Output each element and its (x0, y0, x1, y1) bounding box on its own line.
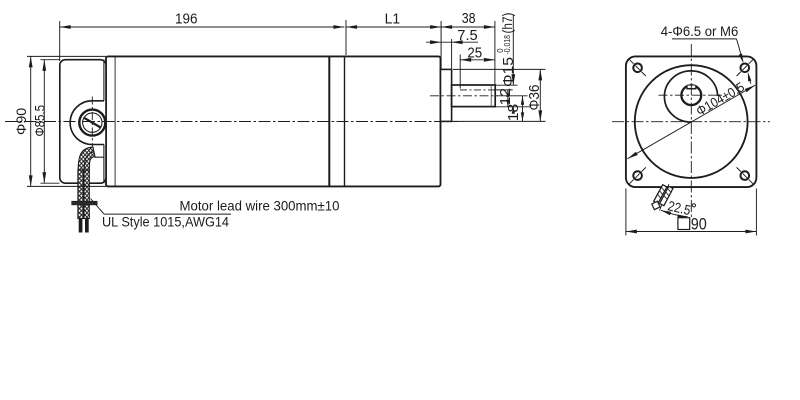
screw outer circle (79, 110, 105, 136)
front shaft circle (681, 85, 701, 105)
lead wire A twisted (78, 170, 83, 219)
rear cap inner edge lower (103, 145, 105, 184)
dim phi85.5 arrow down (42, 172, 46, 183)
dim 196 line (60, 26, 345, 28)
dim 7.5 line (426, 41, 478, 43)
svg-text:Φ90: Φ90 (14, 108, 30, 135)
dim phi90 line (30, 56, 32, 186)
leader 4-phi6.5 diagonal (737, 39, 744, 62)
svg-text:4-Φ6.5 or M6: 4-Φ6.5 or M6 (661, 24, 739, 39)
dim 7.5 arrow left (430, 40, 441, 44)
dim 18 arrow down (521, 112, 524, 121)
dim square90 line (626, 231, 757, 233)
svg-text:-0.018: -0.018 (503, 35, 512, 55)
mounting hole top-right (741, 64, 750, 73)
centerline main motor axis (5, 121, 458, 123)
dim 196 arrow left (60, 25, 71, 29)
screw inner circle (83, 113, 102, 132)
ext phi85.5 bottom (41, 182, 60, 184)
motor body outline (106, 56, 441, 186)
dim 7.5 ext boss face (451, 39, 453, 69)
shaft chamfer line (490, 85, 492, 107)
ext phi90 bottom (27, 185, 106, 187)
dim phi15 arrow up (512, 107, 515, 114)
dim L1 arrow left (346, 25, 357, 29)
shaft flat hidden line (460, 89, 495, 91)
dim square90 ext right (755, 189, 757, 236)
dim square90 ext left (625, 189, 627, 236)
wire opening bottom edge (95, 156, 105, 158)
svg-text:90: 90 (691, 215, 707, 233)
dim square90 arrow left (626, 230, 637, 234)
mounting hole bottom-right diagonal centerline (737, 167, 741, 171)
dim 12 arrow down (506, 100, 509, 107)
dim phi36 arrow down (538, 110, 542, 121)
dim 25 arrow right (484, 58, 495, 62)
svg-text:18: 18 (506, 104, 522, 122)
ext shaft center (497, 95, 528, 97)
front gearhead circle (635, 65, 748, 178)
front lead wire B (660, 186, 673, 205)
dim 38 arrow left (441, 25, 452, 29)
svg-text:38: 38 (462, 10, 476, 27)
svg-text:Motor lead wire 300mm±10: Motor lead wire 300mm±10 (180, 199, 340, 214)
dim 25 arrow left (460, 58, 471, 62)
svg-text:L1: L1 (385, 10, 401, 27)
dim 25 ext left (459, 55, 461, 89)
mounting hole top-left (633, 64, 642, 73)
dim L1 line (346, 26, 441, 28)
output boss phi36 (441, 69, 452, 121)
ext phi85.5 top (41, 59, 60, 61)
screw slot (84, 118, 100, 128)
ext phi90 top (27, 55, 106, 57)
mounting hole bottom-left (633, 171, 642, 180)
wire clamp band (72, 201, 98, 205)
wire tip A (79, 219, 83, 233)
leader 4-phi6.5 underline (672, 38, 737, 40)
svg-text:7.5: 7.5 (457, 27, 477, 44)
mounting hole top-left diagonal centerline (629, 60, 633, 64)
dim phi104 arrow lower-left (627, 152, 638, 159)
front horizontal centerline (612, 121, 770, 123)
rear cap inner edge upper (103, 60, 105, 101)
mounting hole bottom-left diagonal centerline (629, 180, 633, 184)
front square flange (626, 56, 757, 187)
joint line gearhead front (344, 56, 346, 186)
wire tip B (85, 219, 89, 233)
dim 7.5 arrow right (452, 40, 463, 44)
rear cap outline (60, 60, 106, 184)
dim phi15 arrow down (511, 74, 515, 85)
front case spiral (664, 71, 717, 122)
front wire end cap (652, 201, 660, 210)
dim phi104 arrow upper-right (745, 85, 756, 92)
dim square90 arrow right (745, 230, 756, 234)
output shaft phi15 (452, 85, 496, 107)
svg-text:Φ36: Φ36 (527, 85, 543, 111)
svg-text:25: 25 (467, 44, 482, 61)
front lead wire A (654, 185, 667, 204)
dim 38 line (441, 26, 495, 28)
front shaft flat notch (687, 86, 696, 89)
dim phi90 arrow up (29, 56, 33, 67)
svg-text:(h7): (h7) (500, 13, 515, 34)
ext boss bottom (452, 120, 546, 122)
front wire hatching (661, 187, 665, 191)
svg-text:196: 196 (175, 10, 198, 27)
dim 38 ext left (440, 21, 442, 69)
dim 18 arrow up (521, 96, 524, 105)
phi104 arrow at hole tail (749, 76, 751, 84)
joint line paint edge (114, 56, 116, 186)
lead wire B twisted (84, 170, 89, 219)
dim 196 ext right tick (345, 20, 347, 55)
phi104 arrow at hole (748, 72, 752, 82)
dim 22.5 arrow right (678, 215, 688, 219)
dim phi104 line (627, 85, 755, 159)
dim phi36 arrow up (538, 69, 542, 80)
dim 12 arrow up (506, 90, 509, 97)
dim phi85.5 arrow up (42, 60, 46, 71)
dim phi85.5 line (43, 60, 45, 184)
dim L1 arrow right (430, 25, 441, 29)
dim 12 line (507, 90, 509, 107)
ext boss top (453, 68, 546, 70)
dim 22.5 degree symbol (692, 204, 695, 207)
mounting hole top-right diagonal centerline (737, 72, 741, 76)
front vertical centerline (690, 44, 692, 218)
dim phi36 line (539, 69, 541, 121)
svg-text:Φ15: Φ15 (500, 57, 517, 87)
dim phi90 arrow down (29, 175, 33, 186)
svg-text:UL Style 1015,AWG14: UL Style 1015,AWG14 (102, 215, 229, 230)
dim 25 line (460, 59, 495, 61)
dim phi15 line upper (512, 15, 514, 86)
screw vertical centerline (91, 97, 93, 150)
dim 196 arrow right (333, 25, 344, 29)
lead wire elbow middle line (84, 152, 94, 172)
dim 22.5 arrow left (661, 210, 671, 215)
dim 18 line (522, 96, 524, 122)
dim square90 symbol (678, 218, 690, 230)
ext shaft bottom (495, 106, 531, 108)
ext shaft flat (495, 89, 513, 91)
dim 38 ext right (494, 21, 496, 84)
dim 38 arrow right (484, 25, 495, 29)
svg-text:12: 12 (498, 88, 514, 106)
leader lead wire horizontal (104, 213, 231, 215)
dim 196 ext left (59, 21, 61, 61)
terminal boss (70, 101, 104, 145)
centerline output shaft axis (430, 95, 498, 97)
front wire direction line (660, 184, 669, 210)
leader 4-phi6.5 arrowhead (739, 54, 744, 64)
mounting hole bottom-right (741, 171, 750, 180)
lead wire elbow band (78, 147, 95, 172)
joint line motor-gearhead flange (328, 56, 330, 186)
front shaft horizontal centerline (659, 94, 725, 96)
dim phi15 line lower (512, 107, 514, 112)
svg-text:Φ85.5: Φ85.5 (33, 105, 49, 137)
dim 22.5 arc (661, 210, 688, 216)
ext shaft top (495, 84, 517, 86)
leader lead wire diagonal (91, 199, 105, 215)
